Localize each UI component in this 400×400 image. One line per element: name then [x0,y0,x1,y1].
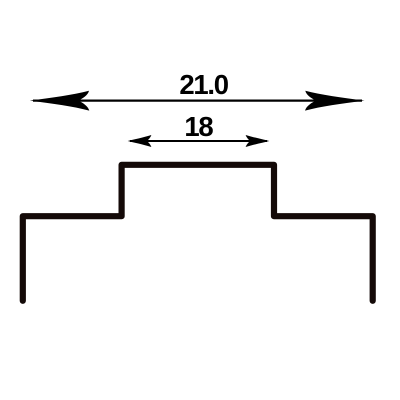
svg-text:21.0: 21.0 [179,69,228,100]
svg-text:18: 18 [184,111,213,142]
